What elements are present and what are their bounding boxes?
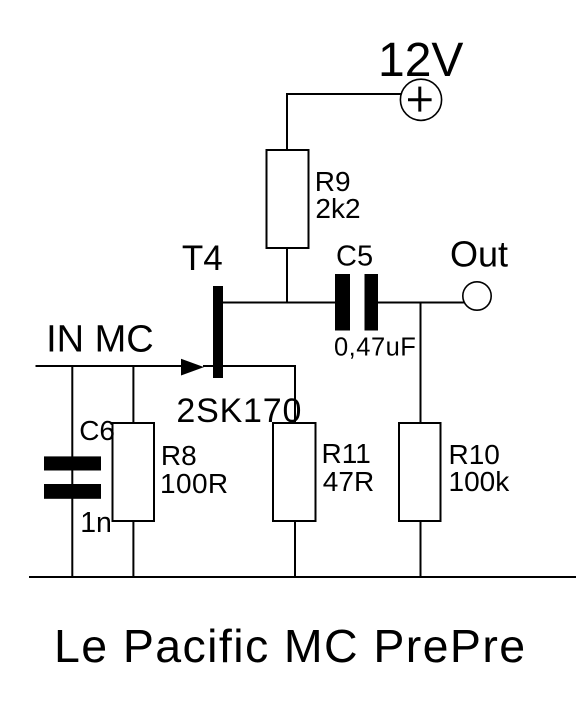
- svg-text:100k: 100k: [449, 466, 511, 497]
- svg-text:2SK170: 2SK170: [176, 392, 302, 430]
- svg-text:12V: 12V: [378, 34, 463, 87]
- svg-text:47R: 47R: [323, 466, 374, 497]
- svg-text:T4: T4: [182, 239, 223, 278]
- svg-text:C5: C5: [336, 241, 373, 273]
- svg-text:R8: R8: [161, 440, 197, 471]
- svg-text:2k2: 2k2: [315, 193, 360, 224]
- svg-text:C6: C6: [79, 415, 115, 446]
- svg-text:0,47uF: 0,47uF: [334, 334, 416, 362]
- svg-text:R11: R11: [322, 438, 371, 469]
- svg-text:Out: Out: [450, 234, 508, 275]
- svg-text:100R: 100R: [160, 468, 229, 499]
- svg-text:Le Pacific MC PrePre: Le Pacific MC PrePre: [54, 620, 526, 672]
- svg-text:IN MC: IN MC: [46, 319, 154, 361]
- svg-text:1n: 1n: [80, 507, 112, 539]
